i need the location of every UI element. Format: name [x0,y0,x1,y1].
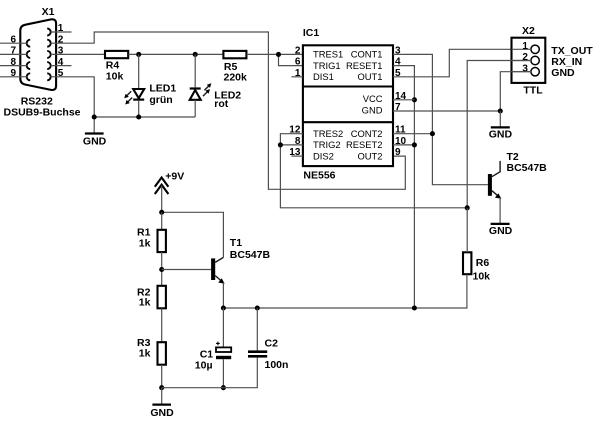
X1 pin 9 contact arc [27,73,30,80]
wire R4 to R5 [128,53,223,55]
wire T2 emitter to GND [499,198,501,224]
X2 pin 1 circle [531,45,539,53]
ground GND symbol below R3 [161,388,163,405]
junction R5/LED2 [193,52,198,57]
svg-text:+9V: +9V [165,171,184,183]
wire RX node to R6 top [466,208,468,253]
svg-text:6: 6 [295,57,301,68]
X1 pin 8 contact arc [27,62,30,69]
svg-text:CONT2: CONT2 [351,128,383,139]
ground GND symbol below T2 [491,223,510,225]
X2 pin 1 internal stub [512,48,531,50]
wire +9V down to R1 [161,212,163,230]
svg-text:1k: 1k [139,237,151,249]
junction TRES1/TRIG1 [276,52,281,57]
wire IC1 pin 7 GND to X2 area [393,110,500,112]
wire T1 base [162,269,211,271]
svg-text:R6: R6 [476,257,490,269]
svg-text:CONT1: CONT1 [351,49,383,60]
junction T1 emitter / C1 [221,305,226,310]
svg-text:GND: GND [489,128,513,140]
svg-text:10µ: 10µ [195,359,213,371]
wire +9V stem [161,185,163,212]
wire IC1 pin 8 / TRIG2 net to RX node [280,145,467,208]
connector X2 box [512,38,546,83]
wire X1 pin 7 [0,53,27,55]
svg-text:C2: C2 [265,337,279,349]
svg-text:3: 3 [522,63,528,74]
svg-text:220k: 220k [224,72,248,84]
junction X1 pin5/GND rail [92,114,97,119]
svg-text:RESET2: RESET2 [346,139,382,150]
X1 pin 2 contact arc [47,40,51,47]
svg-text:1k: 1k [139,347,151,359]
X1 pin 6 contact arc [27,40,30,47]
wire R2 to R3 [161,308,163,342]
wire IC1 pin 11 [393,133,432,135]
wire R1 to R2 [161,252,163,286]
junction RX/TRIG2/R6 [465,205,470,210]
svg-text:RESET1: RESET1 [346,60,382,71]
svg-text:1k: 1k [139,297,151,309]
wire X1 pin 1 stub [51,31,72,33]
connector X1 DSUB9 outline [20,19,56,90]
LED1 (green) [138,54,140,89]
wire IC1 pin 12 to pin 8 [280,134,303,145]
X1 pin 5 contact arc [47,73,51,80]
wire C1 bottom to ground rail [222,359,224,388]
wire X2 pin 3 to GND [500,72,531,111]
wire X1 pin 6 [0,42,27,44]
wire IC1 pin 3 CONT net to T2 base [393,54,488,184]
svg-text:TRIG2: TRIG2 [313,139,341,150]
X2 pin 2 circle [531,56,539,64]
LED2 emission arrows [204,86,209,91]
junction R4/LED1 [136,52,141,57]
junction C1/ground rail [221,385,226,390]
svg-text:GND: GND [150,407,174,419]
ground GND symbol near X2 [499,111,501,127]
X1 pin 3 contact arc [47,51,51,58]
svg-text:10k: 10k [473,270,491,282]
svg-text:DIS2: DIS2 [313,150,334,161]
resistor R4 [105,51,128,58]
svg-text:LED1: LED1 [149,83,176,95]
svg-text:NE556: NE556 [303,169,335,181]
capacitor C2 [256,308,258,350]
wire C2 bottom to ground rail [162,358,258,388]
svg-text:TRES1: TRES1 [313,49,343,60]
svg-text:TRIG1: TRIG1 [313,60,341,71]
svg-text:rot: rot [214,98,229,110]
IC1 section divider 2 [303,121,393,123]
wire R6 bottom to supply rail [223,274,467,308]
svg-text:TRES2: TRES2 [313,128,343,139]
X1 pin 4 contact arc [47,62,51,69]
junction C2 top [255,305,260,310]
svg-text:OUT1: OUT1 [357,71,382,82]
capacitor C1 (polarized) [222,308,224,347]
wire R3 to ground rail [161,365,163,388]
wire ground rail under LEDs [94,116,195,118]
X2 pin 3 internal stub [512,71,531,73]
wire X1 pin 9 [0,76,27,78]
X1 pin 1 contact arc [47,29,51,36]
junction RESET2 [412,142,417,147]
IC1 pin 13 stub [291,155,303,157]
LED2 (red) [194,54,196,87]
IC1 section divider 1 [303,85,393,87]
svg-text:2: 2 [522,52,528,63]
resistor R5 [223,51,246,58]
X2 pin 3 circle [531,68,539,76]
wire X1 pin 5 down to ground rail [51,77,95,117]
wire jog TRES1/TRIG1 [279,54,303,65]
svg-text:9: 9 [395,147,401,158]
IC1 pin 1 stub [291,76,303,78]
junction R1/R2/T1 base [159,267,164,272]
wire X1 pin 4 stub [51,65,72,67]
svg-text:100n: 100n [265,359,289,371]
wire +9V node to T1 collector [162,212,224,257]
svg-text:10k: 10k [106,71,124,83]
junction supply rail / RESET vertical [412,305,417,310]
junction +9V node [159,210,164,215]
ground GND symbol below X1 [93,117,95,134]
IC1 NE556 box [303,45,393,166]
resistor R1 [158,230,166,252]
junction LED1/ground rail [136,114,141,119]
svg-text:IC1: IC1 [303,27,320,39]
wire IC1 pin 14 VCC [393,99,414,101]
svg-text:DSUB9-Buchse: DSUB9-Buchse [4,106,81,118]
junction R3/GND/rail [159,385,164,390]
resistor R6 [463,252,471,274]
junction TRES2/TRIG2 [278,142,283,147]
supply +9V symbol [155,178,169,187]
svg-text:GND: GND [362,104,383,115]
transistor T1 BC547B [211,258,215,280]
LED1 emission arrows [127,91,132,96]
svg-text:1: 1 [522,41,528,52]
svg-text:OUT2: OUT2 [357,150,382,161]
svg-text:GND: GND [83,135,107,147]
svg-text:X2: X2 [522,25,535,37]
svg-text:X1: X1 [42,6,55,18]
wire X1 pin 2 to IC1 pin 9 (OUT2) [51,32,406,189]
svg-text:BC547B: BC547B [230,249,271,261]
wire IC1 pin 5 OUT1 to X2 pin 1 [393,49,531,77]
wire IC1 pin 10 [393,144,414,146]
wire X1 pin 8 [0,65,27,67]
junction GND node [498,108,503,113]
wire IC1 pin 4 RESET net down to supply rail [393,66,414,308]
svg-text:grün: grün [149,94,172,106]
svg-text:R4: R4 [106,59,120,71]
wire X1 pin 3 to R4 [51,53,106,55]
resistor R2 [158,286,166,309]
svg-text:VCC: VCC [363,93,383,104]
wire X2 pin 2 RX net down [467,61,531,208]
svg-text:RX_IN: RX_IN [551,56,582,68]
svg-text:GND: GND [551,67,575,79]
svg-text:TTL: TTL [523,85,543,97]
transistor T2 BC547B [488,174,492,196]
svg-text:GND: GND [489,225,513,237]
junction RESET1 vcc [412,97,417,102]
svg-text:2: 2 [295,45,301,56]
wire R5 to IC1 pin 2 [246,53,303,55]
X1 pin 7 contact arc [27,51,30,58]
resistor R3 [158,342,166,365]
wire T1 emitter to supply rail [222,283,224,308]
svg-text:T1: T1 [230,237,242,249]
svg-text:DIS1: DIS1 [313,71,334,82]
X2 pin 2 internal stub [512,60,531,62]
junction CONT1/CONT2 [430,131,435,136]
svg-text:BC547B: BC547B [507,162,548,174]
